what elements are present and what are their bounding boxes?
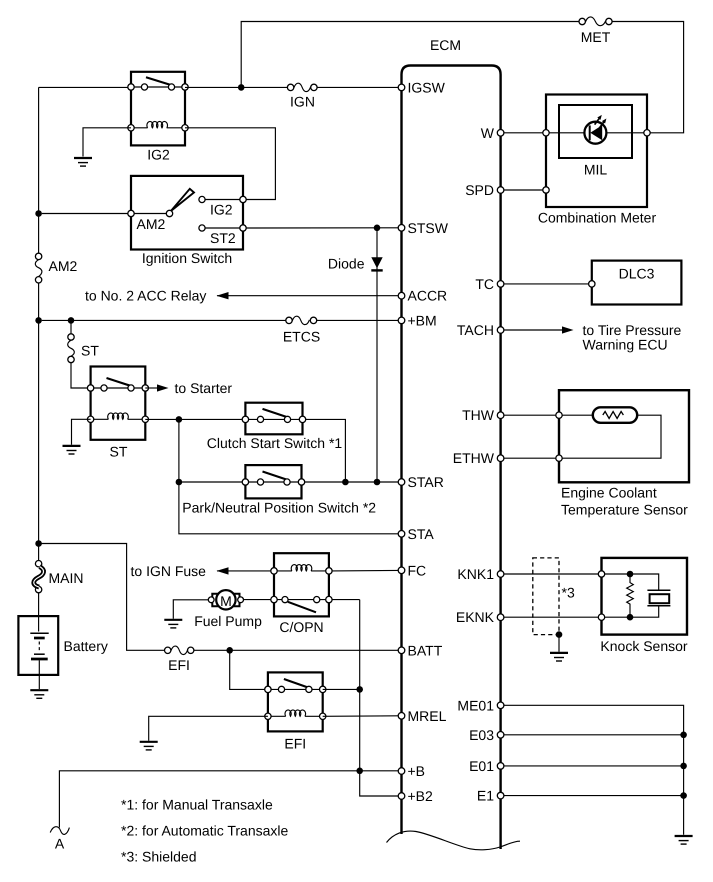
svg-text:Diode: Diode: [328, 255, 365, 271]
fuse ETCS: [286, 317, 292, 323]
C/OPN terminals: [271, 568, 277, 574]
svg-text:Warning ECU: Warning ECU: [583, 336, 668, 352]
wire: ST branch vertical: [71, 320, 87, 388]
svg-text:FC: FC: [408, 562, 427, 578]
node: junction E03/rail: [680, 732, 687, 739]
svg-text:ACCR: ACCR: [408, 288, 448, 304]
svg-text:MIL: MIL: [584, 162, 608, 178]
wire: EFI relay switch to main drop: [323, 688, 360, 690]
svg-text:EKNK: EKNK: [456, 609, 495, 625]
S2 row wire: [245, 418, 302, 420]
ignition switch IG2 contact: [205, 199, 240, 201]
shield dashed box *3: [533, 558, 559, 635]
node: junction E01/rail: [680, 763, 687, 770]
svg-text:+B: +B: [408, 763, 426, 779]
ground (fuel pump): [164, 620, 182, 628]
svg-text:Clutch Start Switch *1: Clutch Start Switch *1: [207, 435, 343, 451]
sensor terminals: [556, 412, 562, 418]
node: junction bus/battery top: [35, 540, 42, 547]
ECM bottom break wave: [387, 831, 521, 850]
svg-text:*1: for Manual Transaxle: *1: for Manual Transaxle: [121, 797, 273, 813]
battery plates: [30, 632, 48, 634]
wire: EKNK pin to knock sensor: [504, 616, 598, 618]
wire+arrow: to IGN Fuse: [217, 570, 271, 572]
svg-text:E01: E01: [469, 758, 494, 774]
arrow: to No. 2 ACC Relay: [217, 292, 229, 299]
ground (ST relay coil): [63, 446, 81, 454]
svg-text:TACH: TACH: [457, 322, 494, 338]
sensor internal wiring: [562, 415, 661, 458]
S2 blade: [263, 409, 287, 417]
pin THW: [497, 412, 504, 419]
EFI relay terminals: [265, 686, 271, 692]
svg-text:ETCS: ETCS: [283, 329, 320, 345]
wire: IG2 switch feed from bus: [39, 86, 129, 88]
fuse IGN: [287, 84, 293, 90]
DLC3 terminal: [589, 281, 595, 287]
svg-text:*3: *3: [562, 585, 575, 601]
S3 row wire: [245, 481, 301, 483]
wire: TC pin to DLC3: [504, 283, 589, 285]
wire: E03 row: [504, 734, 684, 736]
wire: left drop to park/neutral row and STA: [179, 419, 398, 533]
wire: EFI fuse to BATT pin: [194, 649, 398, 651]
C/OPN switch row: [274, 599, 329, 601]
knock sensor piezo element: [647, 590, 670, 606]
pin MREL: [398, 713, 405, 720]
pin TACH: [497, 327, 504, 334]
wire: STAR row: [179, 481, 398, 483]
fuse EFI: [165, 647, 171, 653]
svg-text:IG2: IG2: [147, 147, 170, 163]
svg-text:KNK1: KNK1: [457, 566, 494, 582]
wire: ST2 to STSW pin: [246, 227, 398, 229]
switch S2 Clutch Start Switch box: [245, 403, 302, 435]
relay ST coil: [91, 418, 146, 420]
EFI relay coil: [268, 715, 323, 717]
node: junction E1/rail: [680, 792, 687, 799]
relay EFI box: [268, 672, 323, 731]
C/OPN switch blade: [288, 602, 316, 613]
svg-text:EFI: EFI: [284, 736, 306, 752]
wire: ME01 to right ground rail: [504, 705, 684, 835]
ignition switch ST2 contact: [205, 227, 240, 229]
wire: ST coil to ground: [72, 419, 91, 445]
wire: MET run to combination meter right side: [612, 22, 684, 133]
wire: C/OPN switch right to main drop: [332, 599, 360, 601]
svg-text:DLC3: DLC3: [619, 266, 655, 282]
wire: ETHW pin to sensor: [504, 457, 556, 459]
node: junction bus/AM2 row: [35, 210, 42, 217]
relay ST switch blade: [107, 378, 131, 386]
knock sensor terminals: [598, 571, 604, 577]
wire: W row inside meter: [549, 132, 644, 134]
wire: connector A riser to +B row: [59, 771, 398, 828]
svg-text:THW: THW: [462, 407, 495, 423]
node: junction +B row / main drop: [356, 768, 363, 775]
node: junction STAR/left drop: [176, 479, 183, 486]
combination meter box: [546, 95, 647, 208]
svg-text:IGN: IGN: [290, 94, 315, 110]
svg-text:STSW: STSW: [408, 220, 449, 236]
relay IG2 terminals: [128, 84, 134, 90]
node: junction main drop / EFI switch: [356, 686, 363, 693]
svg-text:STAR: STAR: [408, 474, 444, 490]
thermistor element (pill): [593, 407, 637, 423]
pin E01: [497, 763, 504, 770]
relay IG2 switch blade: [146, 77, 171, 85]
S2 terminals: [242, 416, 248, 422]
svg-text:C/OPN: C/OPN: [279, 619, 323, 635]
node: shield drain junction: [556, 631, 563, 638]
svg-text:to IGN Fuse: to IGN Fuse: [131, 563, 207, 579]
relay ST box: [91, 367, 146, 440]
svg-text:STA: STA: [408, 526, 435, 542]
svg-text:Park/Neutral Position Switch *: Park/Neutral Position Switch *2: [182, 500, 376, 516]
node: junction +BM / ST branch: [68, 317, 75, 324]
relay IG2 box: [131, 72, 185, 146]
wire: AM2 row from bus to pivot: [42, 213, 167, 215]
svg-text:Combination Meter: Combination Meter: [538, 210, 657, 226]
wire: EFI relay coil to MREL pin: [323, 715, 398, 718]
ground (EFI relay coil): [140, 742, 158, 750]
ground (IG2 relay coil): [74, 158, 92, 166]
svg-text:IGSW: IGSW: [408, 79, 446, 95]
wire: fuel pump to ground: [173, 600, 208, 619]
wire: IG2 switch out to IGN fuse: [185, 86, 287, 88]
pin STA: [398, 531, 405, 538]
svg-text:EFI: EFI: [168, 657, 190, 673]
svg-text:IG2: IG2: [210, 202, 233, 218]
relay IG2 coil: [131, 127, 185, 129]
svg-text:ME01: ME01: [457, 697, 494, 713]
knock sensor box: [602, 558, 688, 635]
pin W: [497, 130, 504, 137]
svg-text:W: W: [481, 125, 495, 141]
svg-text:SPD: SPD: [465, 182, 494, 198]
pin TC: [497, 281, 504, 288]
svg-text:E1: E1: [477, 788, 494, 804]
pin ETHW: [497, 455, 504, 462]
svg-text:AM2: AM2: [137, 216, 166, 232]
svg-text:Knock Sensor: Knock Sensor: [600, 638, 687, 654]
pin FC: [398, 567, 405, 574]
pin ME01: [497, 702, 504, 709]
wire: riser to top MET run: [241, 22, 579, 88]
relay ST terminals: [87, 385, 93, 391]
svg-text:Engine Coolant: Engine Coolant: [561, 485, 657, 501]
wire: shield to ground: [558, 635, 560, 652]
svg-text:to No. 2 ACC Relay: to No. 2 ACC Relay: [85, 288, 206, 304]
relay IG2 switch row wire: [131, 86, 185, 88]
wire: left battery bus (vertical, x=38.6): [38, 87, 40, 631]
wire: BATT junction down to EFI relay: [230, 650, 265, 689]
svg-text:ST2: ST2: [210, 230, 236, 246]
svg-text:AM2: AM2: [49, 258, 78, 274]
wire: S2 out, down to STAR row: [306, 419, 346, 482]
wire: SPD pin to meter: [504, 189, 543, 191]
wire: battery feed to EFI fuse: [39, 544, 165, 651]
node: junction IGN row / MET riser: [238, 84, 245, 91]
svg-text:M: M: [220, 593, 232, 609]
ignition switch terminals AM2/pivot: [128, 210, 134, 216]
wire: C/OPN coil to FC pin: [332, 569, 398, 572]
ignition switch SW1 box: [131, 176, 243, 250]
node: junction STAR/diode branch: [374, 479, 381, 486]
svg-text:ST: ST: [81, 343, 99, 359]
svg-text:+B2: +B2: [408, 788, 434, 804]
EFI relay switch row: [268, 688, 323, 690]
svg-text:Temperature Sensor: Temperature Sensor: [561, 502, 688, 518]
ground (battery): [30, 690, 48, 698]
pin E03: [497, 732, 504, 739]
C/OPN coil row: [274, 570, 329, 572]
engine coolant temperature sensor box: [559, 390, 689, 482]
wire: E1 row: [504, 795, 684, 797]
svg-text:MREL: MREL: [408, 708, 447, 724]
wire: W pin to combination meter: [504, 132, 543, 134]
wire: C/OPN switch to fuel pump: [244, 599, 271, 601]
pin EKNK: [497, 614, 504, 621]
wire+arrow: to Starter: [145, 387, 158, 389]
wire: diode branch (STSW to STAR): [376, 228, 378, 482]
motor M1 fuel pump: [212, 594, 218, 606]
knock sensor internal wires: [605, 574, 659, 617]
S3 terminals: [242, 479, 248, 485]
knock sensor resistor: [627, 574, 634, 617]
svg-text:*3: Shielded: *3: Shielded: [121, 849, 197, 865]
pin STSW: [398, 225, 405, 232]
wire: EFI relay coil to ground: [149, 716, 268, 740]
svg-text:E03: E03: [469, 727, 494, 743]
node: junction BATT row / EFI relay drop: [226, 647, 233, 654]
S3 blade: [263, 472, 287, 480]
ground (ECM grounds rail): [675, 836, 693, 844]
switch S3 Park/Neutral Position Switch box: [245, 465, 301, 498]
node: junction STAR/S2 drop: [342, 479, 349, 486]
node: junction bus/+BM row: [35, 317, 42, 324]
wire: battery negative to ground: [38, 660, 40, 689]
node: junction STSW row / diode branch: [374, 225, 381, 232]
pin SPD: [497, 187, 504, 194]
ECM U1 (engine control module body, rounded top, wavy break at bottom): [402, 66, 501, 850]
svg-text:Battery: Battery: [64, 638, 108, 654]
svg-text:*2: for Automatic Transaxle: *2: for Automatic Transaxle: [121, 823, 289, 839]
wire+arrow: TACH to tire pressure warning ECU: [504, 329, 562, 331]
wire: main right drop (C/OPN to +B2): [360, 600, 398, 796]
svg-text:TC: TC: [475, 276, 494, 292]
DLC3 box: [592, 261, 682, 305]
node: junction ST coil row / left drop: [176, 416, 183, 423]
svg-text:+BM: +BM: [408, 312, 437, 328]
pin IGSW: [398, 84, 405, 91]
connector A break squiggle: [50, 827, 69, 835]
relay ST switch row wire: [91, 387, 146, 389]
fuse MET: [579, 18, 585, 24]
ground (shield): [550, 653, 568, 661]
wire: +BM row: [42, 319, 398, 321]
svg-text:ECM: ECM: [430, 37, 461, 53]
svg-text:Ignition Switch: Ignition Switch: [142, 250, 232, 266]
battery BT1 box: [18, 616, 58, 675]
knock sensor junction nodes: [627, 571, 634, 578]
wire: IG2 coil to ground: [83, 128, 131, 157]
relay C/OPN box: [274, 553, 329, 616]
svg-text:MET: MET: [581, 29, 611, 45]
diode D1: [371, 257, 382, 268]
fuse MAIN (fusible link): [35, 561, 41, 567]
pin +B2: [398, 793, 405, 800]
wire: IG2 coil to ignition switch IG2 terminal: [185, 128, 275, 200]
meter terminals: [543, 130, 549, 136]
fuse ST: [68, 334, 74, 340]
svg-text:ST: ST: [110, 444, 128, 460]
pin +B: [398, 768, 405, 775]
pin +BM: [398, 317, 405, 324]
wire: ACCR to No.2 ACC relay: [217, 295, 398, 297]
pin KNK1: [497, 571, 504, 578]
svg-text:Fuel Pump: Fuel Pump: [194, 613, 262, 629]
EFI relay switch blade: [284, 679, 307, 687]
pin STAR: [398, 479, 405, 486]
svg-text:A: A: [55, 836, 65, 852]
svg-text:ETHW: ETHW: [453, 450, 495, 466]
svg-text:BATT: BATT: [408, 642, 443, 658]
wire: KNK1 pin to knock sensor: [504, 573, 598, 575]
wire: IGN fuse to IGSW pin: [317, 86, 398, 88]
ignition switch lever: [171, 189, 194, 211]
MIL inner box: [559, 105, 632, 158]
pin E1: [497, 792, 504, 799]
svg-text:MAIN: MAIN: [49, 570, 84, 586]
fuse AM2 (on left bus): [35, 253, 41, 259]
pin BATT: [398, 647, 405, 654]
lamp MIL (LED symbol): [584, 122, 606, 144]
wire: ST coil out to clutch start switch: [145, 418, 242, 420]
wire: E01 row: [504, 765, 684, 767]
svg-text:to Starter: to Starter: [175, 380, 233, 396]
wire: THW pin to sensor: [504, 414, 556, 416]
pin ACCR: [398, 292, 405, 299]
